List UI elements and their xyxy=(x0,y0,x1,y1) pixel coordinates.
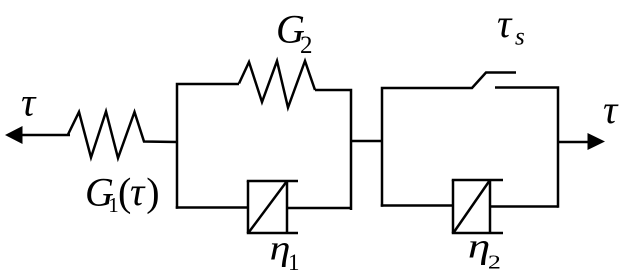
dashpot η1 cylinder left edge xyxy=(247,181,250,233)
left arrowhead xyxy=(5,126,23,144)
spring G1 (nonlinear spring G1(τ)) xyxy=(68,112,177,159)
wire: middle connector between block 1 and block 2 xyxy=(351,140,382,143)
svg-text:1: 1 xyxy=(288,250,300,274)
right arrowhead xyxy=(588,133,606,150)
svg-text:s: s xyxy=(515,24,525,51)
wire: block 1 top-right segment + right vertical bar xyxy=(315,90,351,210)
svg-text:τ: τ xyxy=(603,87,619,132)
value label τs (yield stress of slider) xyxy=(497,1,525,50)
dashpot η1 bottom plate xyxy=(247,232,298,235)
dashpot η2 diagonal xyxy=(454,180,490,232)
wire: block 1 bottom-right segment xyxy=(287,207,351,210)
svg-text:τ: τ xyxy=(130,169,146,214)
right load arrow shaft (stress τ) xyxy=(558,141,589,144)
svg-text:): ) xyxy=(146,170,159,215)
spring G2 xyxy=(239,61,315,108)
wire: block 1 bottom-left segment xyxy=(176,206,248,209)
dashpot η2 bottom plate xyxy=(452,232,503,235)
wire: block 2 bottom-right segment xyxy=(490,205,558,208)
dashpot η2 top plate xyxy=(452,179,503,182)
wire: block 2 left vertical bar + top segment + slider (switch τs) blade xyxy=(382,73,516,207)
value label η2 xyxy=(468,226,501,274)
svg-text:2: 2 xyxy=(488,251,501,273)
dashpot η1 piston right edge xyxy=(286,181,289,233)
dashpot η2 piston right edge xyxy=(489,180,492,233)
value label η1 xyxy=(270,230,300,274)
left load arrow shaft (stress τ) xyxy=(21,134,70,137)
value label G2 xyxy=(276,7,313,59)
dashpot η1 diagonal xyxy=(249,181,287,232)
dashpot η1 top plate xyxy=(247,180,298,183)
wire: Kelvin block 1 left vertical bar + top-left segment xyxy=(177,84,239,209)
wire: block 2 bottom-left segment xyxy=(381,204,453,207)
value label G1(τ) xyxy=(85,169,160,217)
dashpot η2 cylinder left edge xyxy=(452,180,455,233)
svg-text:2: 2 xyxy=(300,32,313,59)
svg-text:τ: τ xyxy=(497,1,513,46)
svg-text:τ: τ xyxy=(21,80,37,125)
wire: block 2 top-right segment + right vertical bar xyxy=(495,88,558,208)
